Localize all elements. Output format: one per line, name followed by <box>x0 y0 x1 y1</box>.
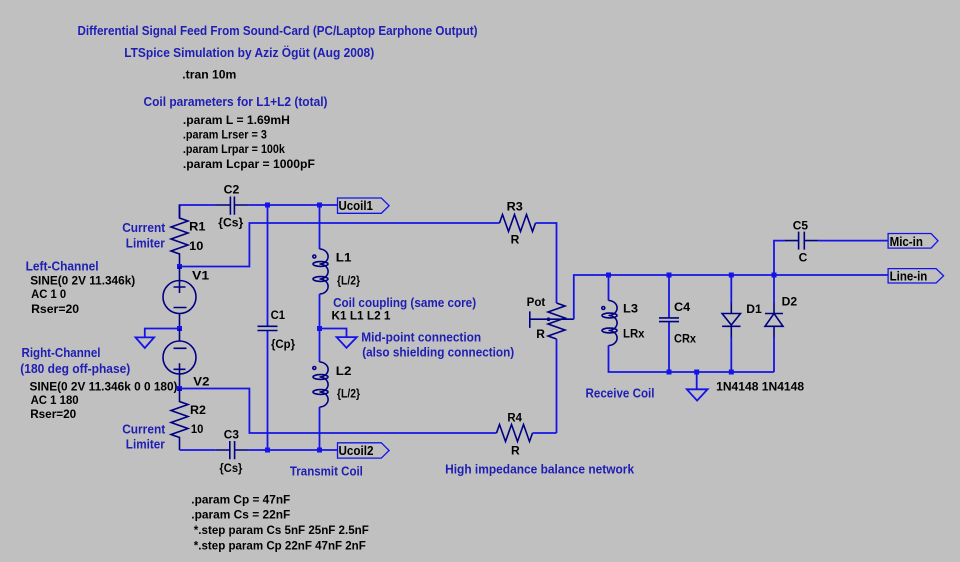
svg-text:R: R <box>536 327 545 341</box>
svg-text:.tran 10m: .tran 10m <box>182 68 236 82</box>
node junction V1/V2 mid <box>177 326 182 331</box>
svg-text:(also shielding connection): (also shielding connection) <box>362 346 514 360</box>
flag Ucoil1 <box>338 198 390 213</box>
resistor R2 <box>171 389 188 451</box>
svg-text:C1: C1 <box>271 308 286 322</box>
capacitor C3 <box>216 441 249 459</box>
ground right <box>687 389 708 400</box>
svg-text:R: R <box>511 233 520 247</box>
flag Mic-in <box>888 234 938 249</box>
node junction top L1 <box>317 203 322 208</box>
wire R1 junction to R3 route <box>180 223 500 267</box>
svg-text:R: R <box>511 443 520 457</box>
svg-text:.param Lcpar = 1000pF: .param Lcpar = 1000pF <box>183 157 315 171</box>
svg-text:R4: R4 <box>507 411 522 425</box>
svg-text:{Cs}: {Cs} <box>219 461 242 475</box>
svg-text:Limiter: Limiter <box>126 236 165 250</box>
svg-text:Receive Coil: Receive Coil <box>586 387 655 401</box>
wire pot bottom <box>556 339 558 433</box>
flag Ucoil2 <box>338 443 390 458</box>
svg-text:R1: R1 <box>189 220 206 234</box>
svg-text:.param Lrser = 3: .param Lrser = 3 <box>183 128 267 142</box>
svg-text:SINE(0 2V 11.346k): SINE(0 2V 11.346k) <box>30 273 135 287</box>
svg-text:D1: D1 <box>746 302 762 316</box>
diode D1 <box>722 275 740 372</box>
svg-text:R2: R2 <box>190 403 206 417</box>
ground mid <box>337 337 357 348</box>
svg-text:Rser=20: Rser=20 <box>31 302 79 316</box>
flag Line-in <box>888 269 944 284</box>
wire to mid ground <box>320 329 347 338</box>
wire R4 to pot <box>533 432 557 434</box>
svg-text:Pot: Pot <box>527 295 546 309</box>
capacitor C2 <box>215 197 249 215</box>
svg-text:Current: Current <box>122 221 166 235</box>
svg-text:Mid-point connection: Mid-point connection <box>361 331 481 345</box>
svg-text:Transmit Coil: Transmit Coil <box>290 465 363 479</box>
svg-text:(180 deg off-phase): (180 deg off-phase) <box>20 362 130 376</box>
node junction V2 bottom <box>177 386 182 391</box>
inductor L3 <box>602 275 774 372</box>
svg-text:L1: L1 <box>336 251 352 265</box>
svg-text:Right-Channel: Right-Channel <box>22 346 101 360</box>
svg-text:.param Lrpar = 100k: .param Lrpar = 100k <box>183 142 285 156</box>
resistor R4 <box>497 425 533 442</box>
svg-text:Current: Current <box>122 422 166 436</box>
svg-text:K1 L1 L2 1: K1 L1 L2 1 <box>332 309 391 323</box>
svg-text:{L/2}: {L/2} <box>337 274 360 288</box>
wire to ground left <box>145 329 180 338</box>
svg-text:{Cs}: {Cs} <box>218 216 243 230</box>
voltage source V1 <box>163 267 196 329</box>
node junction L3 top <box>606 273 611 278</box>
svg-text:*.step param Cs 5nF 25nF 2.5nF: *.step param Cs 5nF 25nF 2.5nF <box>194 523 369 537</box>
wire pot wiper up to line <box>574 275 888 319</box>
node junction bottom C4 <box>667 370 672 375</box>
svg-text:{Cp}: {Cp} <box>271 337 295 351</box>
svg-text:C2: C2 <box>224 182 240 196</box>
node junction bottom ground <box>694 370 699 375</box>
node junction D1 top <box>729 273 734 278</box>
svg-text:Ucoil2: Ucoil2 <box>339 443 374 458</box>
svg-text:D2: D2 <box>782 295 798 309</box>
svg-text:V2: V2 <box>193 374 209 388</box>
capacitor C5 <box>785 232 819 250</box>
svg-text:Line-in: Line-in <box>890 269 928 284</box>
node junction bottom C1 <box>265 448 270 453</box>
node junction C4 top <box>667 273 672 278</box>
inductor L2 <box>313 329 328 451</box>
svg-text:*.step param Cp 22nF 47nF 2nF: *.step param Cp 22nF 47nF 2nF <box>194 538 366 552</box>
ground left <box>136 337 155 348</box>
svg-text:V1: V1 <box>192 268 209 282</box>
resistor R3 <box>500 215 536 232</box>
svg-text:Ucoil1: Ucoil1 <box>339 198 373 213</box>
svg-text:LRx: LRx <box>623 327 645 341</box>
svg-text:.param Cp = 47nF: .param Cp = 47nF <box>191 492 290 506</box>
svg-text:L2: L2 <box>336 364 352 378</box>
capacitor C4 <box>659 275 679 372</box>
svg-text:AC 1 0: AC 1 0 <box>31 287 66 301</box>
svg-text:C5: C5 <box>793 218 809 232</box>
diode D2 <box>765 275 783 372</box>
ground right stub <box>696 372 698 389</box>
inductor L1 <box>313 205 328 329</box>
svg-text:C3: C3 <box>224 428 239 442</box>
svg-text:R3: R3 <box>507 200 524 214</box>
potentiometer Pot <box>530 303 574 339</box>
svg-text:SINE(0 2V 11.346k 0 0 180): SINE(0 2V 11.346k 0 0 180) <box>30 379 178 393</box>
node junction transformer mid <box>317 326 322 331</box>
svg-text:Coil parameters for L1+L2 (tot: Coil parameters for L1+L2 (total) <box>144 94 328 109</box>
resistor R1 <box>171 205 188 267</box>
svg-text:CRx: CRx <box>674 332 696 346</box>
wire top rail left <box>180 205 338 218</box>
node junction D2 top <box>772 273 777 278</box>
svg-text:C: C <box>799 250 808 264</box>
svg-text:.param Cs = 22nF: .param Cs = 22nF <box>191 507 290 521</box>
node junction bottom D1 <box>729 370 734 375</box>
svg-text:Left-Channel: Left-Channel <box>26 260 99 274</box>
capacitor C1 <box>258 205 278 450</box>
svg-text:L3: L3 <box>623 302 638 316</box>
svg-text:Limiter: Limiter <box>126 438 165 452</box>
node junction bottom L2 <box>317 448 322 453</box>
svg-text:10: 10 <box>189 239 204 253</box>
svg-text:AC 1 180: AC 1 180 <box>31 393 79 407</box>
wire R3 to pot <box>536 223 557 303</box>
svg-text:1N4148 1N4148: 1N4148 1N4148 <box>716 380 804 394</box>
svg-text:High impedance balance network: High impedance balance network <box>445 463 634 477</box>
svg-text:Rser=20: Rser=20 <box>30 407 76 421</box>
svg-text:LTSpice Simulation by Aziz Ögü: LTSpice Simulation by Aziz Ögüt (Aug 200… <box>124 45 374 60</box>
wire C5 branch <box>774 241 888 275</box>
svg-text:{L/2}: {L/2} <box>337 387 360 401</box>
svg-text:10: 10 <box>191 422 204 436</box>
svg-text:C4: C4 <box>674 300 691 314</box>
node junction top C1 <box>265 203 270 208</box>
svg-text:Differential Signal Feed From: Differential Signal Feed From Sound-Card… <box>78 23 478 38</box>
wire V2 junction to R4 route <box>180 389 497 434</box>
voltage source V2 <box>163 329 196 389</box>
svg-text:.param L = 1.69mH: .param L = 1.69mH <box>183 113 290 127</box>
wire bottom rail left <box>180 449 338 451</box>
svg-text:Mic-in: Mic-in <box>890 234 923 249</box>
node junction R1/V1 <box>177 264 182 269</box>
